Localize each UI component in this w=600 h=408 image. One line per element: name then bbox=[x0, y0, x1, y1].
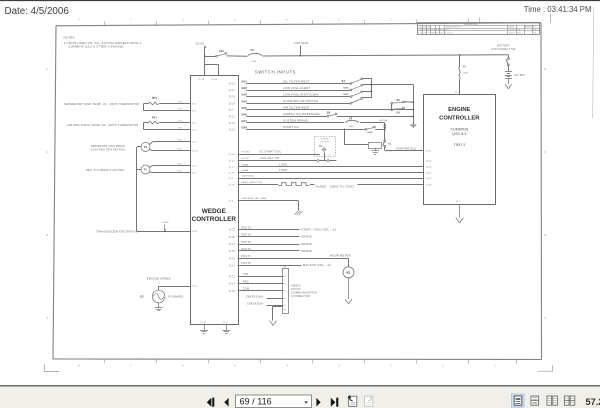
toolbar single page layout button selected bbox=[512, 394, 525, 407]
svg-text:NOTES:: NOTES: bbox=[64, 36, 76, 40]
svg-text:J1-3: J1-3 bbox=[223, 322, 228, 324]
svg-text:CHECKSUM+: CHECKSUM+ bbox=[246, 295, 264, 298]
svg-text:POUT1: POUT1 bbox=[241, 158, 250, 160]
svg-text:ENGINE: ENGINE bbox=[448, 107, 470, 113]
svg-text:3: 3 bbox=[285, 305, 286, 307]
notes text block bbox=[64, 36, 142, 49]
wedge pin J2-26 POUT4 bbox=[228, 234, 251, 239]
node start branch bbox=[344, 129, 346, 131]
wire engine speed to wedge bbox=[159, 286, 199, 290]
svg-text:POUT5: POUT5 bbox=[241, 241, 251, 244]
svg-text:START ON: START ON bbox=[283, 125, 299, 129]
wire rail fuse to cab heat bbox=[263, 55, 301, 57]
svg-text:CONNECTOR: CONNECTOR bbox=[291, 294, 310, 298]
wire output POUT8 bbox=[238, 263, 331, 267]
ground below hour meter bbox=[345, 278, 352, 304]
engine speed label bbox=[147, 277, 171, 281]
ground under wedge left bbox=[200, 324, 208, 333]
wire switch cluster collector bbox=[370, 78, 372, 98]
wedge pin J2-13 GN8 bbox=[228, 127, 247, 132]
switch S3 quarter hip bbox=[350, 98, 371, 105]
wire CAN SHLD AC GND bbox=[238, 197, 299, 210]
wire output POUT3 bbox=[238, 227, 337, 231]
wedge pin J1-30 label bbox=[198, 79, 205, 81]
svg-text:RT1: RT1 bbox=[152, 116, 158, 119]
svg-text:1A/10A: 1A/10A bbox=[379, 119, 388, 122]
svg-text:DM: DM bbox=[517, 30, 520, 32]
separator tank press label bbox=[91, 145, 125, 152]
svg-text:CANB: CANB bbox=[241, 169, 248, 172]
wedge pin J2-11 GN2 bbox=[228, 87, 247, 92]
corner trim mark bottom-left bbox=[44, 364, 59, 371]
svg-text:FREQ THROTTLE: FREQ THROTTLE bbox=[241, 182, 262, 184]
svg-text:COMMUNICATION: COMMUNICATION bbox=[291, 291, 317, 295]
window top border bbox=[0, 0, 600, 2]
node cab heat tap bbox=[299, 55, 301, 57]
svg-text:TRANSDUCER EXCITATION: TRANSDUCER EXCITATION bbox=[96, 230, 138, 234]
svg-text:QUARTER HIP SWITCH: QUARTER HIP SWITCH bbox=[283, 99, 318, 103]
wire TXD to comm connector bbox=[238, 276, 283, 278]
wire output POUT4 bbox=[238, 235, 312, 239]
svg-text:A: A bbox=[47, 316, 49, 320]
switch S8 airbag oil pressure bbox=[327, 112, 413, 118]
switch S4 oil filter bbox=[342, 78, 372, 85]
switch UHC low fuel alert bbox=[344, 84, 372, 91]
header time text bbox=[524, 5, 592, 14]
wire rail to battery branch bbox=[300, 54, 460, 57]
svg-text:J4-46: J4-46 bbox=[426, 167, 433, 169]
svg-text:J2-3: J2-3 bbox=[192, 165, 197, 167]
svg-text:RANGE : 130HZ TO 270HZ: RANGE : 130HZ TO 270HZ bbox=[316, 184, 355, 188]
separator tank temp label bbox=[64, 102, 140, 106]
svg-text:0-225 PSIA OR 0-500 PSIA: 0-225 PSIA OR 0-500 PSIA bbox=[91, 149, 125, 152]
wire starter sol to engine bbox=[385, 146, 424, 150]
svg-text:J2-8: J2-8 bbox=[192, 110, 197, 112]
svg-text:LOW FUEL SHUTDOWN: LOW FUEL SHUTDOWN bbox=[283, 92, 319, 96]
svg-text:SPARE: SPARE bbox=[301, 235, 312, 239]
svg-text:6: 6 bbox=[285, 298, 286, 300]
svg-text:4: 4 bbox=[285, 284, 286, 286]
wire rail to disconnect bbox=[460, 55, 509, 58]
ground below battery bbox=[505, 79, 511, 89]
svg-text:MEDIC: MEDIC bbox=[291, 284, 301, 288]
zone letters left border bbox=[46, 67, 55, 327]
wire rail to fuse bbox=[227, 55, 248, 57]
svg-text:2/8/04: 2/8/04 bbox=[509, 33, 515, 35]
svg-text:SYSTEM BRAKE: SYSTEM BRAKE bbox=[283, 119, 308, 123]
toolbar previous view button bbox=[348, 395, 357, 407]
svg-text:24V BAT: 24V BAT bbox=[514, 74, 525, 77]
svg-text:SYM ZN RV: SYM ZN RV bbox=[419, 27, 431, 29]
svg-text:J2-2: J2-2 bbox=[192, 141, 197, 143]
svg-text:GN4: GN4 bbox=[241, 100, 247, 103]
zone letters right border bbox=[544, 67, 546, 320]
svg-text:C: C bbox=[46, 150, 48, 154]
wedge pin J2-28 FREQ THROTTLE bbox=[228, 182, 262, 187]
svg-text:RT1-: RT1- bbox=[178, 128, 183, 130]
relay K1 coil bbox=[345, 129, 382, 148]
svg-text:CAB HEAT: CAB HEAT bbox=[294, 41, 309, 45]
wedge pins P2 bbox=[177, 140, 198, 153]
wire switch input row AIRBAG OIL PRESSURE bbox=[246, 112, 327, 116]
svg-text:SPARE: SPARE bbox=[301, 242, 312, 246]
switch S10 keyswitch bbox=[205, 50, 227, 57]
svg-text:CANB: CANB bbox=[241, 163, 248, 166]
svg-text:J4-18: J4-18 bbox=[426, 161, 433, 163]
svg-text:J2-11: J2-11 bbox=[228, 276, 235, 278]
svg-text:D: D bbox=[544, 67, 546, 71]
svg-text:POUT3: POUT3 bbox=[241, 226, 251, 229]
wire switch input row SYSTEM BRAKE bbox=[246, 119, 344, 123]
svg-text:J1-31: J1-31 bbox=[200, 322, 207, 324]
switch S11 battery disconnect bbox=[506, 58, 509, 72]
ac ground hatch bbox=[295, 211, 303, 215]
toolbar next view button disabled bbox=[365, 395, 374, 407]
svg-text:UHC: UHC bbox=[367, 132, 373, 134]
wedge pin J2-14 RXD bbox=[228, 280, 248, 285]
switch UHC low fuel shutdown bbox=[344, 91, 372, 98]
transducer excitation label bbox=[96, 230, 198, 234]
wedge pin J2-11 TXD bbox=[228, 273, 248, 278]
svg-text:30A: 30A bbox=[463, 71, 468, 74]
svg-text:F9: F9 bbox=[463, 65, 467, 68]
wire cab heat stub bbox=[294, 41, 309, 56]
svg-text:BACKUP SOL - 12: BACKUP SOL - 12 bbox=[303, 263, 331, 267]
wire CANB low to engine bbox=[238, 168, 424, 173]
ground below G2 bbox=[155, 303, 163, 311]
magnetic pickup G2 bbox=[140, 290, 184, 303]
svg-text:D: D bbox=[46, 67, 48, 71]
wire power feed 2A/15A bbox=[195, 43, 206, 57]
svg-text:J2-28: J2-28 bbox=[228, 185, 235, 187]
svg-text:RXD: RXD bbox=[243, 280, 249, 283]
svg-text:C: C bbox=[544, 150, 546, 154]
svg-text:S8: S8 bbox=[327, 112, 331, 115]
svg-text:CAN SHLD (AC GND): CAN SHLD (AC GND) bbox=[241, 197, 266, 200]
ground under wedge right bbox=[222, 324, 230, 333]
switch S4A bbox=[391, 107, 405, 115]
pressure transducer P1 bbox=[141, 165, 190, 174]
wire switch input row START ON bbox=[246, 125, 365, 129]
svg-text:DATE: DATE bbox=[509, 26, 515, 29]
svg-text:CW: CW bbox=[533, 33, 536, 35]
battery disconnect switch label bbox=[492, 44, 516, 51]
toolbar continuous facing layout button bbox=[564, 396, 574, 405]
svg-text:SEPARATOR TANK TEMP -30 - 250: SEPARATOR TANK TEMP -30 - 250°F THERMIST… bbox=[64, 102, 140, 106]
pressure transducer P2 bbox=[141, 142, 190, 152]
svg-text:TXD: TXD bbox=[243, 273, 249, 276]
wedge pin J2-18 POUT7 bbox=[228, 255, 251, 260]
svg-text:2A/15A: 2A/15A bbox=[195, 43, 204, 46]
svg-text:CW: CW bbox=[533, 30, 536, 32]
wedge pin J2-16 POUT8 bbox=[228, 262, 251, 267]
svg-text:J2-1: J2-1 bbox=[228, 178, 233, 180]
svg-text:57.2: 57.2 bbox=[586, 397, 600, 407]
toolbar facing layout button bbox=[547, 396, 557, 405]
svg-text:APPROVED: APPROVED bbox=[525, 26, 537, 29]
svg-text:1: 1 bbox=[285, 310, 286, 312]
toolbar last page button bbox=[331, 398, 339, 407]
svg-text:KW: KW bbox=[517, 33, 520, 35]
wedge pin J2-27 CANB bbox=[228, 163, 248, 169]
svg-text:UHC: UHC bbox=[344, 87, 350, 89]
ground chassis triangle bbox=[410, 124, 417, 128]
svg-text:8: 8 bbox=[285, 276, 286, 278]
thermistor RT2 bbox=[144, 97, 191, 110]
wire switch input row QUARTER HIP SWITCH bbox=[246, 99, 350, 104]
ground below comm connector bbox=[270, 321, 277, 326]
svg-text:4/6/05: 4/6/05 bbox=[509, 30, 515, 32]
svg-text:E1: E1 bbox=[319, 145, 323, 148]
svg-text:J2-10: J2-10 bbox=[228, 154, 235, 156]
svg-text:PC/CD: PC/CD bbox=[291, 287, 300, 291]
wedge pins P1 bbox=[177, 164, 197, 175]
svg-text:G2: G2 bbox=[140, 296, 144, 299]
switch UHC start on bbox=[365, 126, 385, 134]
wire CAN SHLD to engine bbox=[238, 178, 424, 180]
svg-text:J2-12: J2-12 bbox=[192, 286, 199, 288]
ground below engine controller bbox=[456, 204, 464, 223]
wedge pins RT2 bbox=[178, 102, 197, 113]
svg-text:69 / 116: 69 / 116 bbox=[240, 396, 272, 406]
wire switch input row LOW FUEL SHUTDOWN bbox=[246, 92, 350, 96]
comm connector J6 bbox=[283, 267, 289, 314]
svg-text:REVISIONS: REVISIONS bbox=[464, 24, 478, 26]
svg-text:B: B bbox=[47, 233, 49, 237]
wire output POUT6 bbox=[238, 249, 312, 253]
svg-text:CHECKSUM-: CHECKSUM- bbox=[247, 302, 264, 305]
svg-text:J2-27: J2-27 bbox=[228, 244, 235, 246]
svg-text:J2-5: J2-5 bbox=[192, 122, 197, 124]
svg-text:J2-26: J2-26 bbox=[228, 173, 235, 175]
svg-text:GN6: GN6 bbox=[241, 113, 247, 116]
svg-text:7: 7 bbox=[285, 291, 286, 293]
svg-text:UHC: UHC bbox=[344, 94, 350, 96]
reg sys press label bbox=[86, 169, 124, 172]
svg-text:J2-14: J2-14 bbox=[228, 103, 235, 105]
svg-text:Date: 4/5/2006: Date: 4/5/2006 bbox=[5, 6, 70, 17]
svg-text:J2-9: J2-9 bbox=[192, 173, 197, 175]
thermistor RT1 bbox=[144, 116, 191, 129]
ether valve E1 bbox=[317, 145, 330, 161]
engine controller bottom pin 46C bbox=[456, 201, 461, 203]
connector pins inline on sol row bbox=[317, 160, 329, 162]
ground bus vertical bbox=[412, 85, 414, 125]
wire RXD to comm connector bbox=[238, 283, 283, 285]
svg-text:+VREF: +VREF bbox=[161, 222, 169, 224]
svg-text:TIER 3: TIER 3 bbox=[454, 143, 465, 147]
switch S5 air filter bbox=[391, 99, 413, 110]
svg-text:GN2: GN2 bbox=[241, 87, 247, 90]
svg-text:J2-26: J2-26 bbox=[228, 237, 235, 239]
wedge pin J2-14 GN4 bbox=[228, 100, 247, 105]
svg-text:J2-6: J2-6 bbox=[192, 103, 197, 105]
wire freq throttle to engine bbox=[238, 183, 424, 189]
wedge pin J2-21 GN6 bbox=[228, 113, 247, 118]
svg-text:POUT2: POUT2 bbox=[241, 152, 250, 154]
svg-text:POUT7: POUT7 bbox=[241, 255, 251, 258]
wire collector to ground bus bbox=[371, 84, 413, 86]
toolbar next page button bbox=[316, 398, 320, 407]
battery BT1 24V bbox=[505, 72, 525, 79]
svg-text:LOW FUEL ALERT: LOW FUEL ALERT bbox=[283, 86, 310, 90]
svg-text:J2-29: J2-29 bbox=[228, 251, 235, 253]
wedge pin J2-23 POUT3 bbox=[228, 226, 251, 231]
svg-text:J2-19: J2-19 bbox=[228, 84, 235, 86]
wedge pin J2-1 CAN SHLD bbox=[228, 175, 254, 181]
svg-text:J2-13: J2-13 bbox=[228, 130, 235, 132]
svg-text:AIR END DISCH TEMP -30 - 250°: AIR END DISCH TEMP -30 - 250°F THERMISTO… bbox=[67, 123, 138, 127]
svg-text:B: B bbox=[544, 233, 546, 237]
wire CANB high to engine bbox=[238, 162, 424, 166]
relay K1 contact bbox=[383, 140, 392, 151]
switch inputs title bbox=[255, 69, 296, 74]
svg-text:J2-18: J2-18 bbox=[228, 97, 235, 99]
svg-text:6: 6 bbox=[329, 154, 330, 156]
svg-text:1 A 4 CHG MOUNTING HOLES: 1 A 4 CHG MOUNTING HOLES bbox=[419, 29, 450, 32]
wire J1 feed L bbox=[205, 56, 219, 75]
checksum minus leader bbox=[247, 302, 283, 305]
svg-text:ENGINE SPEED: ENGINE SPEED bbox=[147, 277, 171, 281]
wire COM to comm connector bbox=[238, 290, 283, 292]
svg-text:J2-4: J2-4 bbox=[192, 129, 197, 131]
wedge pin J2-29 POUT6 bbox=[228, 248, 251, 253]
toolbar previous page button bbox=[224, 398, 228, 407]
svg-text:J4-21: J4-21 bbox=[426, 150, 433, 152]
svg-text:PX1-: PX1- bbox=[177, 171, 182, 173]
svg-text:J2-23: J2-23 bbox=[228, 230, 235, 232]
wedge pin J2-2 CAN SHLD AC GND bbox=[228, 201, 233, 203]
wedge pin J2-18 GN3 bbox=[228, 94, 247, 99]
svg-text:SWITCH INPUTS: SWITCH INPUTS bbox=[255, 69, 296, 74]
svg-text:J4-47: J4-47 bbox=[426, 172, 433, 174]
svg-text:CONTROLLER: CONTROLLER bbox=[192, 216, 237, 223]
zone tick marks and numbers bottom bbox=[78, 359, 516, 368]
svg-text:J1939: J1939 bbox=[279, 168, 288, 172]
svg-text:J1939: J1939 bbox=[279, 162, 288, 166]
svg-text:K1: K1 bbox=[388, 143, 392, 146]
vref tap bbox=[161, 222, 169, 232]
svg-text:AIRBAG OIL PRESSURE: AIRBAG OIL PRESSURE bbox=[283, 112, 320, 116]
wedge pin J2-24 POUT1 bbox=[228, 158, 250, 163]
revision table bbox=[418, 23, 541, 35]
engine controller left pin labels bbox=[426, 150, 433, 186]
svg-text:STARTER SOL: STARTER SOL bbox=[396, 146, 417, 150]
svg-text:A: A bbox=[544, 316, 546, 320]
svg-text:J2-18: J2-18 bbox=[228, 259, 235, 261]
svg-text:J2-11: J2-11 bbox=[228, 90, 235, 92]
svg-text:J2-10: J2-10 bbox=[192, 150, 199, 152]
fuse F8 A2 system brake bbox=[345, 118, 385, 128]
svg-text:25 B: 25 B bbox=[455, 92, 460, 94]
svg-text:M1: M1 bbox=[346, 271, 351, 275]
svg-text:START / RUN SOL - 12: START / RUN SOL - 12 bbox=[301, 227, 336, 231]
wedge pins RT1 bbox=[178, 121, 197, 132]
svg-text:J2-7: J2-7 bbox=[228, 110, 234, 112]
wedge pin J2-27 POUT5 bbox=[228, 241, 251, 246]
wedge pin J1-60 label bbox=[211, 79, 218, 81]
toolbar continuous layout button bbox=[531, 396, 539, 405]
svg-text:PX2-: PX2- bbox=[177, 149, 182, 151]
wire comm connector ground bbox=[273, 306, 284, 320]
svg-text:15A: 15A bbox=[251, 60, 256, 63]
svg-text:SOL KEY ON: SOL KEY ON bbox=[261, 156, 280, 160]
svg-text:J2-14: J2-14 bbox=[228, 284, 235, 286]
wedge pin J2-10 POUT2 bbox=[228, 152, 250, 157]
wedge pin J2-26 COM bbox=[228, 288, 249, 293]
wire POUT2 to ether E1 bbox=[238, 150, 320, 155]
svg-text:2 B 1 ADD CONNECTOR TO J1-30: 2 B 1 ADD CONNECTOR TO J1-30 bbox=[419, 32, 453, 35]
svg-text:2: 2 bbox=[317, 154, 318, 156]
wire transducer excitation bus bbox=[137, 147, 191, 232]
svg-text:PX1+: PX1+ bbox=[177, 164, 183, 166]
svg-text:J2-2: J2-2 bbox=[228, 201, 233, 203]
svg-text:AIR FILTER REST: AIR FILTER REST bbox=[283, 106, 310, 110]
zone tick marks and numbers top bbox=[78, 19, 468, 26]
svg-text:DESCRIPTION: DESCRIPTION bbox=[446, 27, 461, 29]
svg-text:OPTION: OPTION bbox=[320, 141, 329, 143]
svg-text:DISCONNECT SW: DISCONNECT SW bbox=[492, 48, 516, 51]
node F9 tap bbox=[459, 54, 461, 56]
svg-text:S10: S10 bbox=[219, 50, 224, 53]
hour meter M1 bbox=[343, 258, 354, 278]
wedge controller box U1 bbox=[191, 76, 239, 325]
svg-text:RT2: RT2 bbox=[152, 97, 158, 100]
wire POUT1 sol key on bbox=[238, 156, 337, 160]
wire switch input row AIR FILTER REST bbox=[246, 106, 413, 110]
svg-text:P1: P1 bbox=[144, 169, 148, 172]
svg-text:J2-26: J2-26 bbox=[228, 291, 235, 293]
svg-text:S4: S4 bbox=[342, 80, 346, 83]
svg-text:S5: S5 bbox=[396, 99, 400, 102]
corner trim mark top-right bbox=[550, 14, 552, 23]
wedge pin J2-26 CANB bbox=[228, 169, 248, 175]
svg-text:RT1+: RT1+ bbox=[178, 121, 184, 123]
svg-text:S4: S4 bbox=[396, 112, 400, 115]
svg-text:CAN SHLD: CAN SHLD bbox=[241, 175, 254, 178]
svg-text:OIL FILTER REST: OIL FILTER REST bbox=[283, 79, 310, 83]
drawing frame border bbox=[53, 23, 542, 360]
wire switch input row OIL FILTER REST bbox=[246, 79, 350, 83]
toolbar background bbox=[0, 385, 600, 408]
wedge pin J2-7 GN5 bbox=[228, 107, 247, 112]
svg-text:Time : 03:41:34 PM: Time : 03:41:34 PM bbox=[524, 5, 592, 14]
svg-text:J1-60: J1-60 bbox=[211, 79, 218, 81]
corner trim mark bottom-right bbox=[537, 365, 552, 371]
toolbar page number field bbox=[236, 395, 312, 408]
svg-text:J2-16: J2-16 bbox=[228, 265, 235, 267]
svg-text:RT2-: RT2- bbox=[178, 109, 183, 111]
svg-text:SPARE: SPARE bbox=[301, 249, 312, 253]
svg-text:CUMMINS QSC 8.3 TIER 3 ENGINE.: CUMMINS QSC 8.3 TIER 3 ENGINE. bbox=[68, 45, 124, 49]
fuse F9 30A bbox=[459, 55, 468, 94]
svg-text:J2-30: J2-30 bbox=[192, 231, 199, 233]
tick above revision table bbox=[479, 17, 481, 22]
checksum plus leader bbox=[246, 295, 283, 298]
wedge pin J1-3 label bbox=[223, 322, 228, 324]
ether option dashed box bbox=[315, 137, 336, 157]
svg-text:J2-23: J2-23 bbox=[228, 123, 235, 125]
scanned paper right edge bbox=[593, 7, 594, 118]
svg-text:J2-21: J2-21 bbox=[228, 116, 235, 118]
svg-text:REG. SYS PRESS 0-100 PSIG: REG. SYS PRESS 0-100 PSIG bbox=[86, 169, 124, 172]
wire switch input row LOW FUEL ALERT bbox=[246, 86, 350, 91]
svg-text:J4-37: J4-37 bbox=[426, 178, 433, 180]
svg-text:RT2+: RT2+ bbox=[178, 102, 184, 104]
svg-text:E1 START SOL: E1 START SOL bbox=[260, 150, 282, 154]
wire output POUT5 bbox=[238, 242, 312, 246]
svg-text:ETHER: ETHER bbox=[321, 139, 329, 141]
